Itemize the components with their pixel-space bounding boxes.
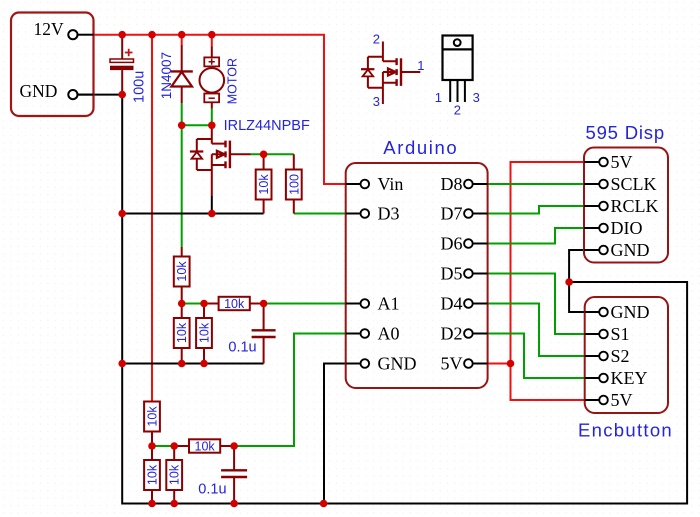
svg-text:RCLK: RCLK — [611, 196, 659, 216]
transistor Q1 IRLZ44NPBF — [190, 118, 310, 196]
svg-text:DIO: DIO — [611, 218, 643, 238]
resistor R6 10k series to A1 — [204, 297, 264, 311]
svg-text:10k: 10k — [257, 174, 271, 195]
wire source GND row black — [122, 213, 263, 215]
pin A1 — [346, 294, 400, 314]
pin D4 — [441, 294, 488, 314]
resistor R7 10k lower from 12V — [144, 402, 160, 447]
pin RCLK — [584, 196, 659, 216]
svg-text:1N4007: 1N4007 — [159, 52, 174, 99]
svg-text:10k: 10k — [168, 464, 182, 485]
node rail-motor — [208, 31, 216, 39]
svg-text:S2: S2 — [611, 346, 630, 366]
node rail-bot-r9 — [170, 500, 178, 508]
svg-text:12V: 12V — [34, 19, 65, 39]
svg-text:10k: 10k — [175, 261, 189, 282]
pin S1 — [585, 324, 630, 344]
svg-text:D3: D3 — [378, 204, 400, 224]
motor M1 — [200, 47, 240, 109]
node rail-D1 — [178, 31, 186, 39]
IC U3 595 Disp box — [584, 122, 668, 263]
pin S2 — [585, 346, 630, 366]
resistor R9 10k lower B — [166, 446, 182, 504]
pin GND Encbutton — [585, 302, 650, 322]
node rail-R7 — [148, 31, 156, 39]
svg-text:1: 1 — [417, 58, 424, 73]
wire GND connector black — [78, 94, 123, 96]
pin D3 — [346, 204, 400, 224]
wire D2-KEY green — [488, 334, 585, 379]
node rail-bot-gnd — [320, 500, 328, 508]
wire flyback green — [182, 103, 212, 125]
svg-text:GND: GND — [611, 302, 650, 322]
svg-text:5V: 5V — [441, 354, 463, 374]
svg-text:D4: D4 — [441, 294, 463, 314]
svg-text:GND: GND — [378, 354, 417, 374]
resistor R10 10k series to A0 — [174, 439, 234, 453]
node gnd-cap — [118, 91, 126, 99]
svg-text:10k: 10k — [146, 464, 160, 485]
resistor R1 10k gate pulldown — [256, 154, 272, 213]
node A1-c — [260, 300, 268, 308]
node srcgnd-mos — [208, 210, 216, 218]
svg-text:D7: D7 — [441, 204, 463, 224]
wire D4-S2 green — [488, 304, 585, 357]
node flyback-right — [208, 122, 216, 130]
wire gate net green — [251, 153, 294, 155]
svg-text:IRLZ44NPBF: IRLZ44NPBF — [224, 118, 310, 134]
wire GND main loop black — [122, 95, 687, 504]
node gndrow-r4 — [178, 360, 186, 368]
resistor R5 10k divider bottom B — [196, 304, 212, 364]
pin D5 — [441, 264, 488, 284]
wire red stub over motor top lead — [211, 35, 213, 47]
svg-text:0.1u: 0.1u — [198, 482, 226, 498]
resistor R8 10k lower A — [144, 446, 160, 504]
svg-text:A0: A0 — [378, 324, 400, 344]
wire GND row to cap black — [122, 363, 263, 365]
resistor R2 100 gate series — [286, 154, 302, 213]
TO-220 package U2 — [435, 36, 480, 118]
pin Vin — [346, 174, 404, 194]
wire 12V drop to lower divider — [151, 35, 153, 402]
svg-text:D5: D5 — [441, 264, 463, 284]
pin SCLK — [584, 174, 657, 194]
wire Arduino GND drop black — [324, 364, 346, 504]
wire D7-RCLK green — [488, 206, 584, 214]
svg-text:Encbutton: Encbutton — [578, 420, 673, 441]
pin A0 — [346, 324, 400, 344]
wire A1 green — [182, 303, 346, 305]
node gnd-right — [565, 278, 573, 286]
svg-text:D2: D2 — [441, 324, 463, 344]
svg-text:3: 3 — [373, 94, 380, 109]
node rail-bot-c3 — [230, 500, 238, 508]
node A0-a — [148, 442, 156, 450]
svg-text:5V: 5V — [611, 152, 633, 172]
pin KEY — [585, 368, 648, 388]
wire D8-SCLK green — [488, 183, 584, 185]
svg-text:2: 2 — [454, 103, 461, 118]
transistor Q2 standalone mosfet symbol — [361, 31, 425, 109]
svg-text:5V: 5V — [611, 390, 633, 410]
node A1-a — [178, 300, 186, 308]
connector P1 12V/GND — [11, 13, 94, 117]
svg-text:3: 3 — [473, 90, 480, 105]
svg-text:Arduino: Arduino — [383, 137, 458, 158]
svg-text:1: 1 — [435, 90, 442, 105]
svg-text:595 Disp: 595 Disp — [586, 122, 665, 143]
wire A0 green — [152, 334, 346, 447]
wire red stub over diode top lead — [181, 35, 183, 45]
svg-text:GND: GND — [611, 240, 650, 260]
node gate — [260, 151, 268, 159]
svg-text:10k: 10k — [175, 322, 189, 343]
svg-text:MOTOR: MOTOR — [225, 58, 239, 104]
node srcgnd-left — [118, 210, 126, 218]
wire drain to divider green — [181, 125, 183, 247]
svg-text:SCLK: SCLK — [611, 174, 657, 194]
svg-text:D6: D6 — [441, 234, 463, 254]
node gndrow-left — [118, 360, 126, 368]
resistor R4 10k divider bottom A — [174, 304, 190, 364]
pin D6 — [441, 234, 488, 254]
svg-text:10k: 10k — [195, 440, 216, 454]
svg-text:A1: A1 — [378, 294, 400, 314]
wire D3 green — [294, 213, 346, 215]
svg-text:S1: S1 — [611, 324, 630, 344]
svg-text:GND: GND — [20, 81, 58, 101]
diode D1 1N4007 — [159, 45, 193, 103]
pin GND left — [346, 354, 417, 374]
node rail-cap — [118, 31, 126, 39]
pin 5V Encbutton — [585, 390, 633, 410]
wire D5-S1 green — [488, 274, 585, 335]
node A0-b — [170, 442, 178, 450]
svg-text:2: 2 — [373, 31, 380, 46]
pin DIO — [584, 218, 643, 238]
node A1-b — [200, 300, 208, 308]
svg-text:10k: 10k — [224, 297, 245, 311]
IC U1 Arduino box — [346, 137, 488, 388]
node rail-bot-r8 — [148, 500, 156, 508]
pin D2 — [441, 324, 488, 344]
pin GND 595 — [584, 240, 650, 260]
pin 5V 595 — [584, 152, 633, 172]
wire 12V rail red — [94, 35, 346, 184]
wire D6-DIO green — [488, 228, 584, 244]
pin D7 — [441, 204, 488, 224]
svg-text:KEY: KEY — [611, 368, 648, 388]
wire 595 GND to Encbutton GND black — [569, 250, 585, 312]
IC U4 Encbutton box — [578, 297, 673, 441]
svg-text:100u: 100u — [132, 71, 148, 103]
svg-text:10k: 10k — [198, 322, 212, 343]
pin 5V right — [441, 354, 488, 374]
node A0-c — [230, 442, 238, 450]
pin D8 — [441, 174, 488, 194]
node 5v — [507, 360, 515, 368]
capacitor C2 0.1u — [228, 304, 275, 364]
wire 5V net red — [488, 162, 585, 400]
wire mosfet source black — [211, 196, 213, 214]
node flyback-left — [178, 122, 186, 130]
resistor R3 10k drain divider top — [174, 247, 190, 304]
svg-text:10k: 10k — [146, 406, 160, 427]
capacitor C1 100u — [110, 35, 148, 103]
node gndrow-r5 — [200, 360, 208, 368]
svg-text:0.1u: 0.1u — [228, 340, 256, 356]
svg-text:D8: D8 — [441, 174, 463, 194]
svg-text:Vin: Vin — [378, 174, 404, 194]
svg-text:100: 100 — [287, 174, 301, 195]
capacitor C3 0.1u — [198, 446, 247, 504]
